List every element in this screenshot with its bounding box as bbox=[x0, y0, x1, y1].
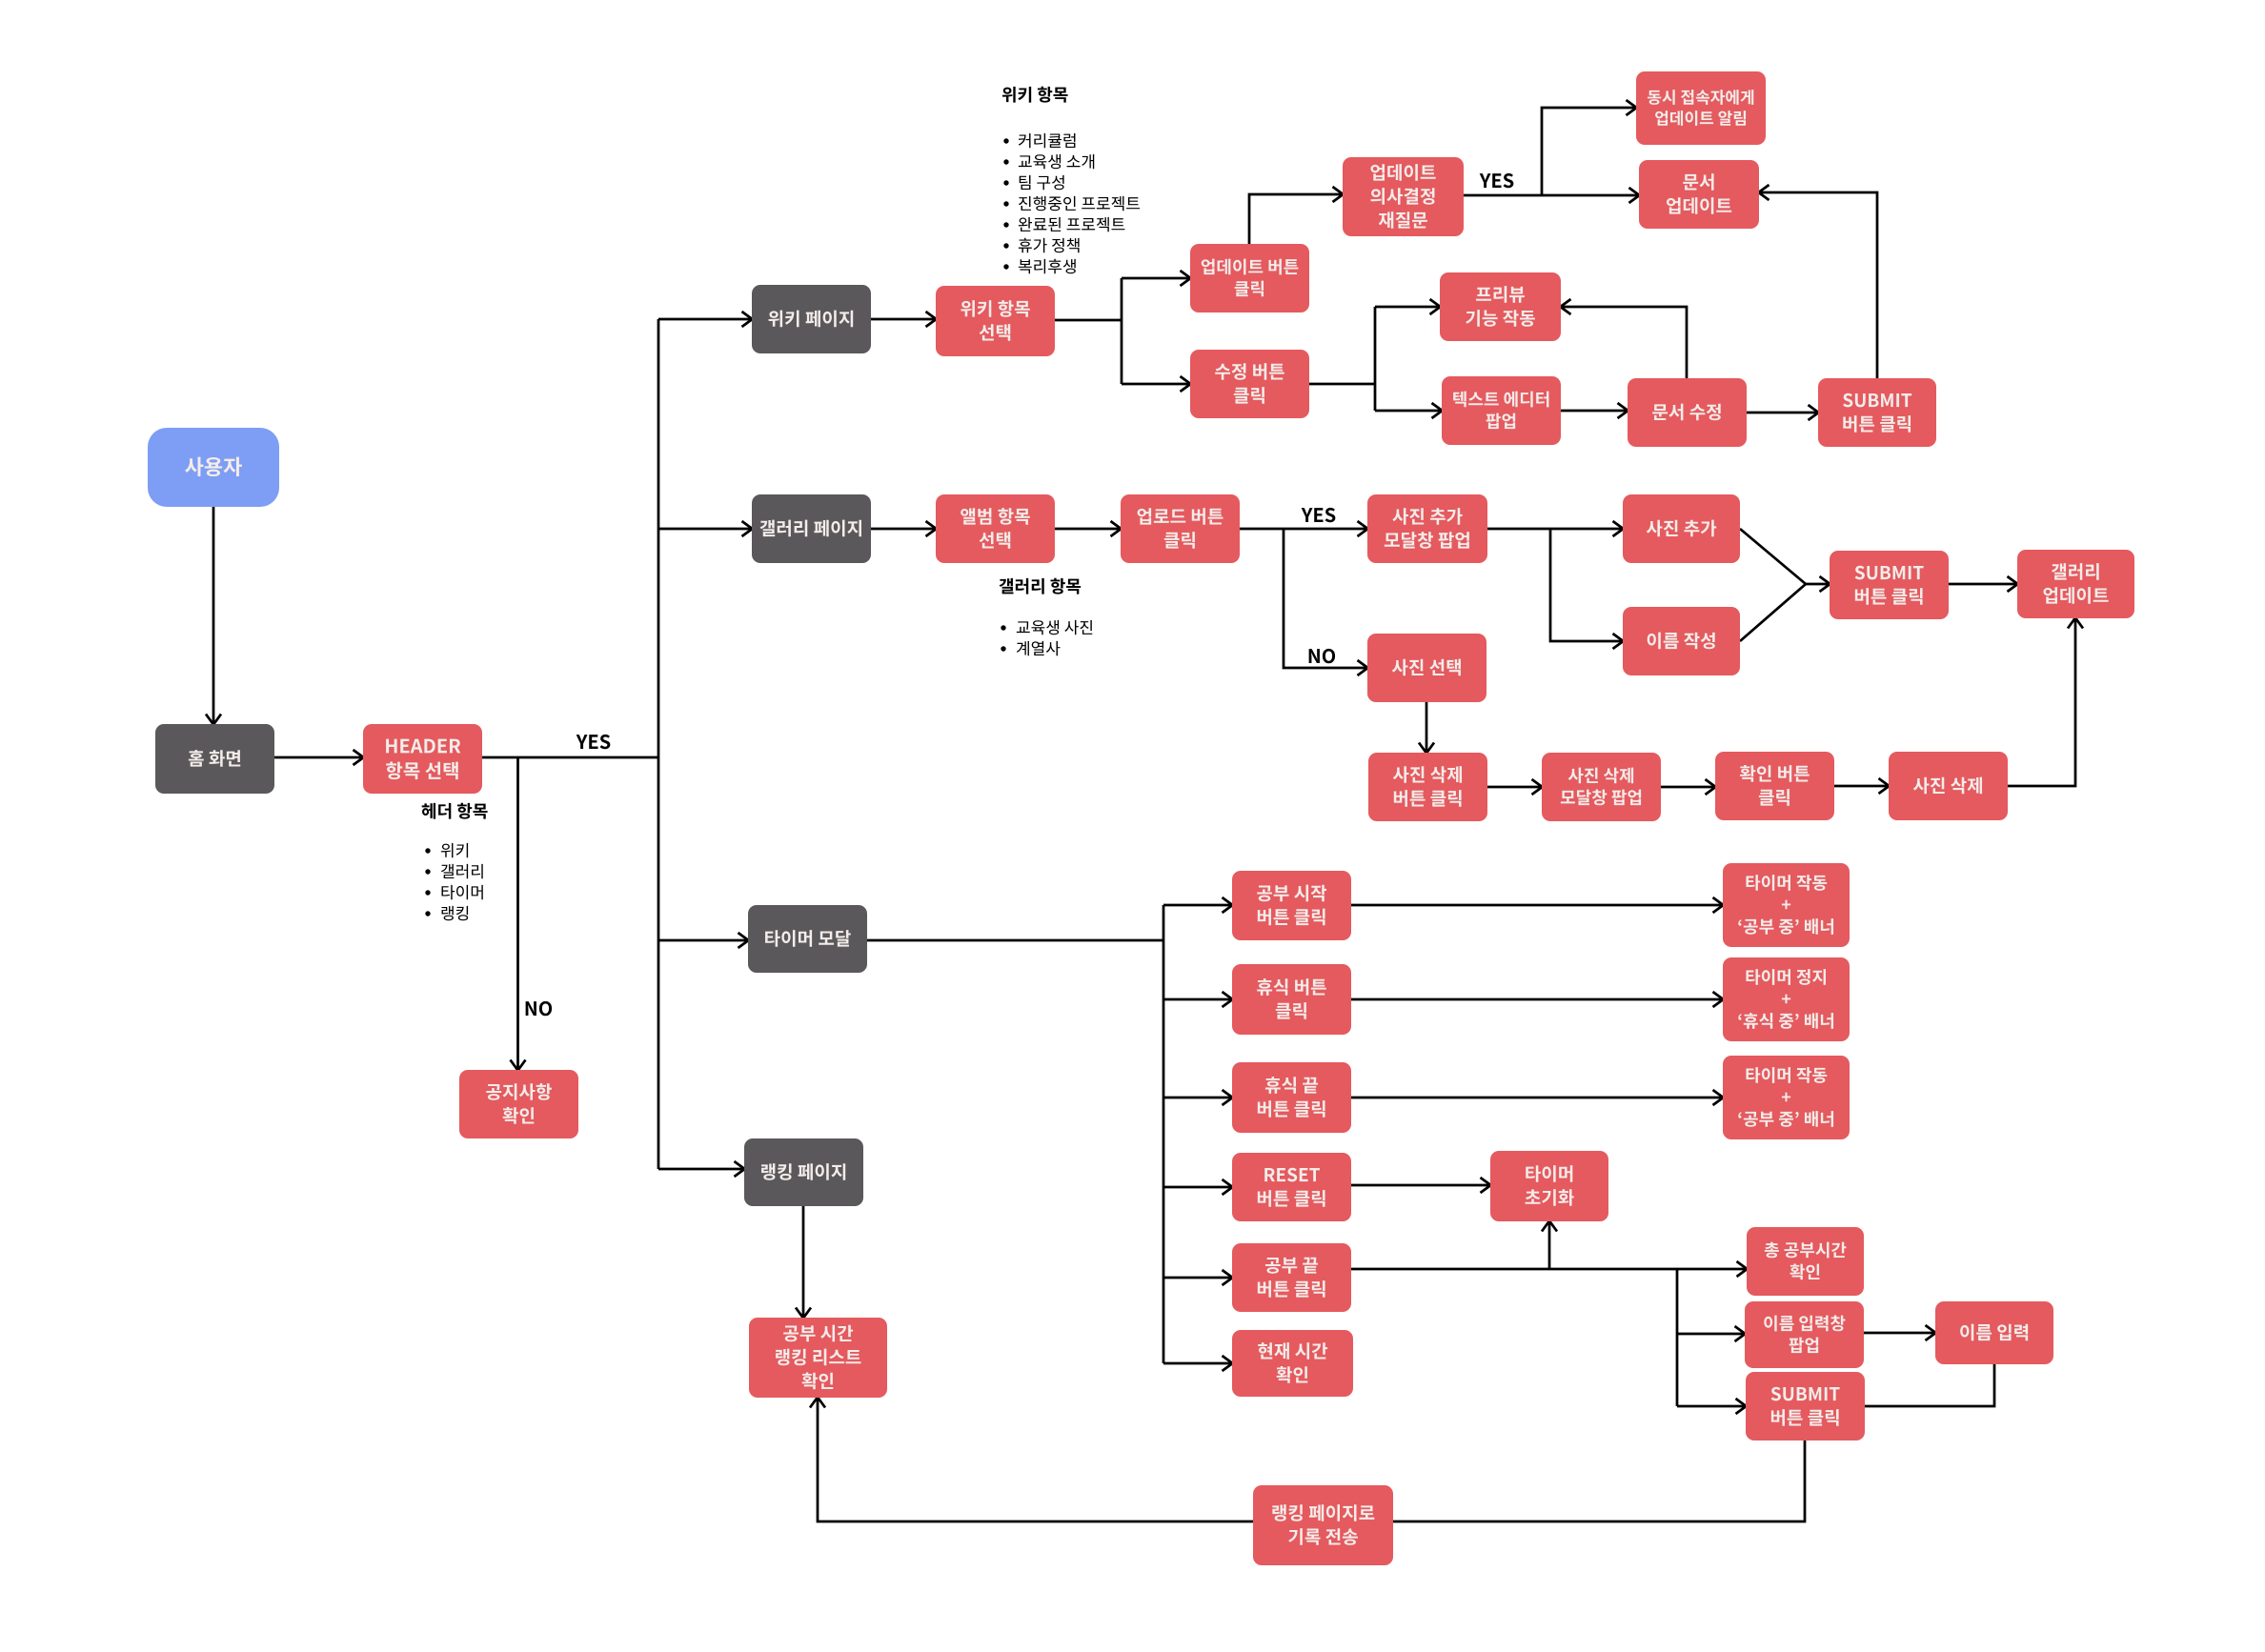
wire photo-delete->gallery-update bbox=[2008, 618, 2075, 786]
wire update-decision->doc-update (YES) bbox=[1464, 194, 1639, 197]
node notify-concurrent-users bbox=[1636, 71, 1766, 145]
wire user->home bbox=[212, 507, 215, 724]
node album-item-select bbox=[936, 494, 1055, 563]
wire album-select->upload-btn bbox=[1055, 528, 1121, 531]
list wiki-items bbox=[1003, 133, 1140, 273]
wire timer fork vertical bbox=[1163, 905, 1165, 1363]
node name-input-popup bbox=[1745, 1301, 1864, 1368]
wire fork4 vertical bbox=[1676, 1269, 1679, 1406]
wire fork->edit-btn bbox=[1122, 383, 1190, 386]
node reset-btn-click bbox=[1232, 1153, 1351, 1221]
node rest-end-btn bbox=[1232, 1062, 1351, 1133]
wire wiki fork vertical bbox=[1121, 278, 1123, 384]
wire rest-btn->timer-stop-banner bbox=[1351, 998, 1723, 1001]
wire text-editor->doc-edit bbox=[1561, 410, 1628, 413]
node timer-run-study-banner-2 bbox=[1723, 1056, 1850, 1139]
node photo-add bbox=[1623, 494, 1740, 563]
wire confirm-btn->photo-delete bbox=[1834, 785, 1889, 788]
wire edit fork vertical bbox=[1374, 307, 1377, 411]
wire rest-end->timer-run-banner2 bbox=[1351, 1097, 1723, 1099]
node current-time-check bbox=[1232, 1330, 1353, 1397]
node submit-btn-click-1 bbox=[1818, 378, 1936, 447]
wire header-select->branch (YES) bbox=[482, 756, 658, 759]
label NO (header branch) bbox=[526, 1001, 552, 1016]
node photo-del-btn-click bbox=[1368, 753, 1487, 821]
node gallery-update bbox=[2017, 550, 2134, 618]
node user (사용자) bbox=[148, 428, 279, 507]
node notice-check bbox=[459, 1070, 578, 1138]
wire fork->name-write bbox=[1550, 529, 1623, 641]
wire gallery-page->album-select bbox=[871, 528, 936, 531]
wire header-select->notice (NO) bbox=[516, 757, 519, 1070]
wire study-end->total-study-time bbox=[1351, 1268, 1747, 1271]
node upload-btn-click bbox=[1121, 494, 1240, 563]
wire home->header-select bbox=[274, 756, 363, 759]
wire merge->submit2 bbox=[1806, 583, 1830, 586]
list gallery-items bbox=[1001, 620, 1092, 655]
node doc-update bbox=[1639, 160, 1759, 229]
wire photo-add-modal->photo-add bbox=[1487, 528, 1623, 531]
node wiki-item-select bbox=[936, 286, 1055, 356]
wire fork4->name-input-popup bbox=[1677, 1333, 1745, 1336]
node photo-select bbox=[1367, 634, 1486, 702]
node gallery-page bbox=[752, 494, 871, 563]
wire wiki-item-select->fork bbox=[1055, 319, 1122, 322]
wire photo-select->photo-del-btn bbox=[1426, 702, 1428, 753]
node text-editor-popup bbox=[1442, 376, 1561, 445]
node timer-init bbox=[1490, 1151, 1608, 1221]
wire edit-btn->fork2 bbox=[1309, 383, 1375, 386]
node study-time-ranking-list bbox=[749, 1318, 887, 1398]
label gallery-items header bbox=[1000, 578, 1081, 594]
wire fork4->submit3 bbox=[1677, 1405, 1746, 1408]
node update-btn-click bbox=[1190, 244, 1309, 312]
node timer-modal bbox=[748, 905, 867, 973]
node name-input bbox=[1935, 1301, 2053, 1364]
wire name-write merge diagonal bbox=[1740, 584, 1806, 641]
node timer-stop-rest-banner bbox=[1723, 957, 1850, 1041]
label NO (upload branch) bbox=[1309, 649, 1335, 663]
wire submit1->doc-update bbox=[1759, 192, 1877, 378]
wire main branch vertical bbox=[657, 319, 660, 1169]
wire fork3->study-start bbox=[1163, 904, 1232, 907]
wire photo-del-btn->photo-del-modal bbox=[1487, 786, 1542, 789]
node doc-edit bbox=[1628, 378, 1747, 447]
wire doc-edit->preview bbox=[1561, 307, 1687, 378]
wire timer-modal->fork3 bbox=[867, 939, 1163, 942]
list header-items bbox=[425, 843, 482, 920]
label YES (header branch) bbox=[576, 735, 611, 749]
node preview-works bbox=[1440, 272, 1561, 341]
node total-study-time bbox=[1747, 1227, 1864, 1296]
wire fork2->text-editor bbox=[1375, 410, 1442, 413]
wire study-start->timer-run-banner bbox=[1351, 904, 1723, 907]
node submit-btn-click-3 bbox=[1746, 1372, 1865, 1440]
wire photo-del-modal->confirm-btn bbox=[1661, 786, 1715, 789]
node study-start-btn bbox=[1232, 871, 1351, 940]
wire fork->update-btn bbox=[1122, 277, 1190, 280]
node rest-btn-click bbox=[1232, 964, 1351, 1035]
wire ->timer-init (up) bbox=[1548, 1221, 1551, 1269]
wire wiki-page->wiki-item-select bbox=[871, 318, 936, 321]
node timer-run-study-banner-1 bbox=[1723, 863, 1850, 947]
node photo-del-modal bbox=[1542, 753, 1661, 821]
wire branch->wiki-page bbox=[658, 318, 752, 321]
label header-items header bbox=[422, 803, 488, 819]
wire update-decision->notify bbox=[1542, 108, 1636, 195]
wire fork3->rest-btn bbox=[1163, 998, 1232, 1001]
wire fork3->current-time bbox=[1163, 1362, 1232, 1365]
wire ranking-page->ranking-list bbox=[802, 1206, 805, 1318]
wire fork2->preview bbox=[1375, 306, 1440, 309]
wire reset-btn->timer-init bbox=[1351, 1184, 1490, 1187]
wire fork3->rest-end bbox=[1163, 1097, 1232, 1099]
wire fork3->reset-btn bbox=[1163, 1186, 1232, 1189]
node study-end-btn bbox=[1232, 1243, 1351, 1312]
wire fork3->study-end bbox=[1163, 1277, 1232, 1279]
wire doc-edit->submit1 bbox=[1747, 412, 1818, 414]
label YES (upload branch) bbox=[1302, 508, 1336, 522]
node confirm-btn-click bbox=[1715, 752, 1834, 820]
node photo-delete bbox=[1889, 752, 2008, 820]
node submit-btn-click-2 bbox=[1830, 551, 1949, 619]
wire upload-btn->photo-select (NO) bbox=[1284, 529, 1367, 668]
wire submit3->ranking-list (long) bbox=[818, 1398, 1805, 1521]
node edit-btn-click bbox=[1190, 350, 1309, 418]
node home (홈 화면) bbox=[155, 724, 274, 794]
wire name-input-popup->name-input bbox=[1864, 1332, 1935, 1335]
node name-write bbox=[1623, 607, 1740, 675]
label YES (update decision) bbox=[1480, 173, 1514, 188]
wire branch->ranking-page bbox=[658, 1168, 744, 1171]
wire update-btn->update-decision bbox=[1249, 194, 1343, 244]
label wiki-items header bbox=[1002, 87, 1068, 103]
node update-decision-requestion bbox=[1343, 157, 1464, 236]
node ranking-page bbox=[744, 1138, 863, 1206]
wire photo-add merge diagonal bbox=[1740, 529, 1806, 584]
wire name-input->submit3 bbox=[1865, 1361, 1994, 1406]
node header-select bbox=[363, 724, 482, 794]
node send-record-to-ranking bbox=[1253, 1485, 1393, 1565]
wire upload-btn->photo-add-modal (YES) bbox=[1240, 528, 1367, 531]
wire submit2->gallery-update bbox=[1949, 583, 2017, 586]
node wiki-page bbox=[752, 285, 871, 353]
node photo-add-modal bbox=[1367, 494, 1487, 563]
wire branch->gallery-page bbox=[658, 528, 752, 531]
wire branch->timer-modal bbox=[658, 939, 748, 942]
